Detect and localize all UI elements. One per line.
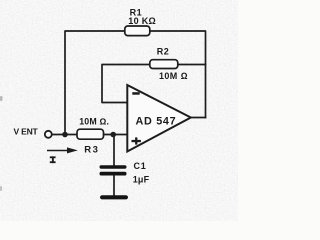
svg-text:10M Ω.: 10M Ω.: [79, 117, 109, 127]
svg-text:R3: R3: [84, 144, 99, 155]
svg-text:10M Ω: 10M Ω: [159, 71, 188, 81]
svg-text:R2: R2: [157, 46, 170, 56]
svg-text:10 KΩ: 10 KΩ: [128, 16, 156, 26]
svg-text:C1: C1: [134, 161, 147, 171]
svg-text:1μF: 1μF: [133, 175, 150, 185]
svg-text:AD 547: AD 547: [136, 115, 177, 127]
svg-text:V ENT: V ENT: [14, 127, 39, 137]
